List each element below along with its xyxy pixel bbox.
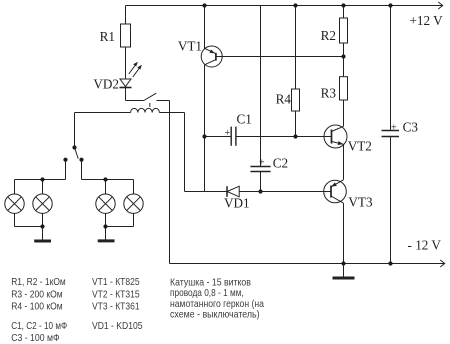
wire lamp HL1 bottom lead <box>14 213 16 226</box>
node VT1 emitter junction on rail <box>202 3 206 7</box>
wire lamp HL2 bottom lead <box>42 213 44 226</box>
ground left lamps <box>34 227 51 242</box>
svg-text:+: + <box>259 158 265 169</box>
wire lamp HL1 top lead <box>14 180 16 195</box>
node right ground junction <box>103 224 107 228</box>
label legend column 1 <box>11 277 67 344</box>
ground main <box>333 264 355 279</box>
svg-text:VT3 - КТ361: VT3 - КТ361 <box>92 302 140 313</box>
node R2-R3 junction <box>341 54 345 58</box>
lamp HL3 <box>96 194 115 213</box>
svg-text:Катушка - 15 витков: Катушка - 15 витков <box>170 277 251 288</box>
resistor R1 <box>121 24 131 47</box>
wire R1 top lead <box>125 6 127 25</box>
svg-text:C1: C1 <box>237 112 252 127</box>
diode VD1 <box>185 186 332 197</box>
switch S2 selector arm <box>75 148 79 159</box>
transistor VT3 <box>324 180 347 203</box>
wire coil left to selector switch <box>74 113 76 148</box>
wire R1 bottom lead to VD2 <box>125 47 127 79</box>
wire VT3 collector to -12V rail <box>343 203 345 263</box>
wire R2 to R3 <box>343 43 345 77</box>
svg-text:C2: C2 <box>273 156 288 171</box>
wire left contact down <box>65 160 67 180</box>
svg-text:VD2: VD2 <box>93 76 119 91</box>
LED VD2 <box>120 62 142 88</box>
svg-text:C3: C3 <box>403 120 419 135</box>
capacitor C2 <box>250 167 270 172</box>
wire C3 top from rail <box>390 6 392 131</box>
wire +12V top rail <box>126 5 443 7</box>
svg-text:R1, R2 - 1кОм: R1, R2 - 1кОм <box>11 277 65 288</box>
switch S2 right contact <box>79 158 83 162</box>
wire reed switch to -12V rail <box>169 101 171 264</box>
switch S1 mechanical link tick <box>149 103 151 107</box>
resistor R4 <box>292 89 300 111</box>
wire lamp HL4 bottom lead <box>133 213 135 226</box>
inductor L1 coil <box>75 108 185 112</box>
svg-text:+: + <box>391 123 397 134</box>
wire lamp HL3 top lead <box>105 180 107 195</box>
wire right lamp group top <box>82 179 134 181</box>
wire VT1 base to R2-R3 junction <box>216 56 344 58</box>
svg-text:VT2 - КТ315: VT2 - КТ315 <box>92 290 140 301</box>
wire VD2 cathode to reed switch <box>125 88 127 101</box>
capacitor C3 <box>382 131 400 137</box>
node lamp HL3 top junction <box>103 177 107 181</box>
transistor VT2 <box>324 125 347 148</box>
node R2 top junction on rail <box>341 3 345 7</box>
svg-text:схеме - выключатель): схеме - выключатель) <box>170 310 260 321</box>
node VT1 collector / C1 junction <box>202 134 206 138</box>
wire right contact down <box>81 160 83 180</box>
switch S1 arm <box>144 93 157 100</box>
svg-text:+: + <box>225 128 231 139</box>
wire R2 top lead <box>343 6 345 19</box>
wire left lamp group top <box>15 179 66 181</box>
svg-text:VT1 - КТ825: VT1 - КТ825 <box>92 277 140 288</box>
wire left lamp group bottom <box>15 226 43 228</box>
svg-text:C3 - 100 мФ: C3 - 100 мФ <box>11 333 60 344</box>
wire R4 top lead <box>295 6 297 90</box>
transistor VT1 <box>201 6 222 68</box>
switch S1 right lead <box>157 100 170 102</box>
label legend column 3 <box>170 277 264 320</box>
svg-text:VT2: VT2 <box>348 139 372 154</box>
capacitor C1 <box>205 127 236 146</box>
svg-text:VD1 - KD105: VD1 - KD105 <box>92 321 143 332</box>
node top rail arrowhead <box>438 2 442 9</box>
node C2-VD1 junction <box>258 189 262 193</box>
node C3 on bottom rail <box>388 261 392 265</box>
wire -12V bottom rail <box>170 263 445 265</box>
resistor R2 <box>340 18 348 43</box>
wire R4 bottom lead <box>295 111 297 137</box>
svg-text:- 12 V: - 12 V <box>408 238 442 253</box>
wire C1 to R4 bottom and VT2 base <box>236 136 332 138</box>
svg-text:R1: R1 <box>100 29 115 44</box>
svg-text:провода 0,8 - 1 мм,: провода 0,8 - 1 мм, <box>170 288 244 299</box>
svg-text:R4: R4 <box>276 92 292 107</box>
node C3 top junction on rail <box>388 3 392 7</box>
node left ground junction <box>40 224 44 228</box>
wire lamp HL3 bottom lead <box>105 213 107 226</box>
wire lamp HL2 top lead <box>42 180 44 195</box>
lamp HL1 <box>5 194 24 213</box>
resistor R3 <box>340 77 348 100</box>
svg-text:C1, C2 - 10 мФ: C1, C2 - 10 мФ <box>11 321 67 332</box>
svg-text:R4 - 100 кОм: R4 - 100 кОм <box>11 302 62 313</box>
switch S2 selector common node <box>72 145 76 149</box>
svg-text:VT1: VT1 <box>178 39 202 54</box>
label legend column 2 <box>92 277 143 332</box>
wire coil right end down to VD1 line <box>184 113 186 192</box>
wire C2 top from rail <box>260 6 262 167</box>
svg-text:намотанного геркон (на: намотанного геркон (на <box>170 299 264 310</box>
svg-text:R2: R2 <box>321 28 336 43</box>
ground right lamps <box>98 227 115 241</box>
wire lamp HL4 top lead <box>133 180 135 195</box>
switch S2 left contact <box>63 158 67 162</box>
svg-text:+12 V: +12 V <box>410 13 444 28</box>
node R4 bottom junction <box>293 134 297 138</box>
lamp HL4 <box>124 194 143 213</box>
wire VT1 collector down to VD1 line <box>204 65 206 192</box>
lamp HL2 <box>33 194 52 213</box>
wire C3 bottom to -12V rail <box>390 137 392 264</box>
node VT3 on bottom rail <box>341 261 345 265</box>
wire right lamp group bottom <box>106 226 134 228</box>
wire VT2 emitter to VT3 emitter <box>343 144 345 180</box>
svg-text:VD1: VD1 <box>224 196 250 211</box>
node R4 top junction on rail <box>293 3 297 7</box>
wire R3 bottom to VT2 collector <box>343 100 345 126</box>
node bottom rail arrowhead <box>440 260 444 267</box>
svg-text:R3 - 200 кОм: R3 - 200 кОм <box>11 290 62 301</box>
svg-text:VT3: VT3 <box>348 195 373 210</box>
svg-text:R3: R3 <box>321 86 337 101</box>
node lamp HL2 top junction <box>40 177 44 181</box>
wire C2 bottom to VD1 line <box>260 172 262 192</box>
switch S1 reed (geркон) left lead <box>126 100 144 102</box>
